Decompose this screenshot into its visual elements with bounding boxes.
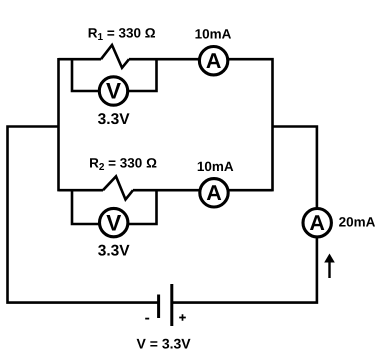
battery short plate (-) — [157, 295, 160, 319]
ammeter A3 (main, 20mA) — [303, 209, 331, 237]
svg-text:V: V — [106, 210, 121, 235]
svg-text:A: A — [206, 181, 222, 205]
wire: branch 2 left segment — [59, 189, 104, 192]
wire: branch 1 left segment — [59, 58, 102, 61]
battery plus label — [179, 314, 186, 321]
wire: bottom-left + left vertical + left feed connector — [8, 127, 159, 303]
wire: left bus vertical — [57, 58, 60, 191]
svg-text:10mA: 10mA — [195, 27, 232, 42]
battery — [159, 284, 172, 326]
voltmeter U2 — [100, 208, 128, 236]
ammeter A2 — [200, 179, 228, 207]
ammeter A1 — [199, 47, 227, 75]
wire: right tee + main ammeter drop + bottom-right wire — [172, 127, 317, 303]
wire: voltmeter loop 2 — [72, 190, 157, 224]
battery long plate (+) — [170, 284, 173, 326]
wire: branch 1 right segment + right drop to branch2 level — [129, 59, 273, 191]
resistor R2 — [103, 176, 133, 199]
current direction arrow — [324, 254, 335, 279]
svg-text:A: A — [206, 49, 222, 73]
svg-text:V = 3.3V: V = 3.3V — [137, 336, 192, 352]
battery minus label — [145, 318, 149, 320]
svg-text:3.3V: 3.3V — [98, 111, 131, 128]
wire: voltmeter loop 1 — [72, 59, 157, 91]
resistor R1 — [101, 45, 129, 68]
svg-text:20mA: 20mA — [339, 215, 376, 230]
svg-text:V: V — [106, 79, 121, 104]
voltmeter U1 — [99, 77, 127, 105]
wire: branch 2 right segment — [133, 189, 273, 192]
svg-text:10mA: 10mA — [197, 159, 234, 174]
svg-text:A: A — [309, 211, 325, 235]
svg-text:3.3V: 3.3V — [98, 242, 131, 259]
